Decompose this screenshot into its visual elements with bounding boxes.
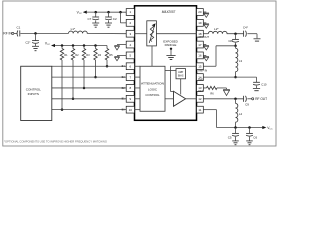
- VCC arrow pullup: [51, 44, 55, 47]
- node: [106, 65, 109, 68]
- capacitor C2: [105, 12, 117, 21]
- wire control row: [52, 109, 126, 111]
- svg-text:AMP IN: AMP IN: [198, 69, 207, 73]
- border frame: [3, 1, 276, 146]
- wire: [55, 45, 107, 47]
- wire: [87, 32, 126, 34]
- VCC arrow top: [83, 11, 87, 14]
- svg-text:C2*: C2*: [25, 41, 31, 45]
- node: [61, 44, 64, 47]
- wire: [135, 109, 141, 111]
- wire: [135, 65, 141, 67]
- pin 13: [197, 85, 204, 92]
- RF IN terminal: [12, 32, 14, 34]
- BIAS label: [198, 79, 204, 82]
- ground: [254, 39, 261, 41]
- capacitor C4*: [243, 25, 249, 36]
- wire attenuator to logic: [151, 46, 153, 66]
- wire: [247, 98, 251, 100]
- ground: [105, 20, 112, 27]
- wire pin 11 to rail: [203, 110, 262, 128]
- svg-text:MAX2057: MAX2057: [162, 9, 176, 14]
- pin 7: [122, 74, 135, 81]
- VCC label out: [267, 126, 273, 130]
- footnote: [4, 139, 108, 143]
- svg-text:20: 20: [198, 10, 202, 14]
- attenuator U1a: [147, 21, 157, 46]
- svg-text:INPUTS: INPUTS: [28, 92, 39, 96]
- svg-text:LOGIC: LOGIC: [148, 87, 157, 91]
- wire: [217, 88, 227, 89]
- svg-text:16: 16: [198, 54, 202, 58]
- node A: [234, 45, 237, 48]
- wire: [235, 43, 237, 46]
- ground: [203, 23, 209, 28]
- wire logic to amp: [165, 98, 174, 100]
- wire amp bias to amp: [180, 79, 182, 95]
- wire pin15 internal: [171, 66, 197, 91]
- pin 10: [122, 106, 135, 113]
- wire pin 15: [203, 65, 216, 67]
- wire: [20, 32, 68, 34]
- wire amp to pin 12: [186, 98, 197, 100]
- wire pin3 to attenuator: [135, 33, 147, 35]
- control inputs box: [21, 66, 52, 120]
- resistor R3: [82, 46, 90, 61]
- ground: [223, 89, 230, 95]
- RF IN label: [3, 32, 12, 36]
- pin 2: [126, 19, 134, 26]
- inductor L3: [236, 46, 243, 72]
- node: [94, 11, 97, 14]
- svg-text:ATT OUT: ATT OUT: [198, 35, 209, 39]
- svg-text:15: 15: [198, 64, 202, 68]
- svg-text:C4*: C4*: [243, 25, 249, 29]
- wire: [235, 72, 237, 77]
- pin 4: [126, 41, 134, 48]
- resistor R2: [71, 46, 79, 61]
- amp bias box U1b: [176, 69, 186, 79]
- pin 9: [122, 95, 135, 102]
- inductor L2*: [208, 27, 227, 34]
- node: [119, 11, 122, 14]
- svg-text:L3: L3: [239, 59, 243, 63]
- pin 8: [122, 85, 135, 92]
- ground: [203, 12, 209, 17]
- svg-text:CONTROL: CONTROL: [145, 93, 160, 97]
- svg-text:R3: R3: [86, 53, 90, 57]
- VCC arrow out: [262, 126, 266, 129]
- wire to pin 2: [121, 12, 127, 23]
- node: [94, 44, 97, 47]
- VCC label top: [77, 10, 83, 14]
- node: [72, 98, 75, 101]
- pin 18: [197, 30, 204, 37]
- svg-text:L4: L4: [239, 112, 243, 116]
- svg-text:C7: C7: [87, 17, 91, 21]
- ground: [114, 55, 126, 60]
- VCC label pullup: [45, 42, 51, 46]
- wire control row: [52, 65, 126, 67]
- ground: [253, 86, 260, 91]
- ground exposed paddle: [166, 56, 175, 60]
- pin 12: [197, 95, 204, 102]
- wire: [14, 32, 17, 34]
- svg-text:R5: R5: [109, 53, 113, 57]
- wire control row: [52, 76, 126, 78]
- svg-text:R1: R1: [64, 53, 68, 57]
- node RF out: [234, 98, 237, 101]
- pin 19: [197, 19, 204, 26]
- AMP IN label: [198, 69, 207, 73]
- capacitor C6: [246, 128, 257, 140]
- capacitor C1: [16, 26, 20, 37]
- pin 20: [197, 9, 204, 16]
- wire: [203, 33, 208, 35]
- capacitor C2*: [25, 33, 39, 44]
- op-amp IC U1 MAX2057 body: [135, 6, 197, 121]
- svg-text:DET: DET: [198, 90, 203, 93]
- node input: [34, 32, 37, 35]
- wire: [61, 60, 63, 110]
- ground: [246, 137, 253, 145]
- inductor L1*: [69, 27, 88, 34]
- wire: [247, 34, 257, 39]
- resistor R5: [105, 46, 113, 61]
- svg-text:RF OUT: RF OUT: [255, 97, 267, 101]
- wire control row: [52, 98, 126, 100]
- amplifier U1c: [174, 91, 186, 106]
- node: [94, 76, 97, 79]
- resistor R6: [203, 86, 217, 95]
- wire: [106, 60, 108, 66]
- node: [248, 126, 251, 129]
- wire: [135, 98, 141, 100]
- wire logic to amp bias: [165, 70, 176, 72]
- wire node A to amp in: [216, 46, 236, 66]
- ground: [92, 20, 99, 27]
- svg-text:10: 10: [129, 108, 133, 112]
- ground: [203, 55, 209, 60]
- pin 15: [197, 63, 204, 70]
- capacitor C5: [228, 128, 239, 140]
- wire: [72, 60, 74, 99]
- ground: [114, 45, 126, 50]
- pin 14: [197, 74, 204, 81]
- svg-text:*OPTIONAL COMPONENTS USE TO IM: *OPTIONAL COMPONENTS USE TO IMPROVE HIGH…: [4, 139, 108, 143]
- node: [83, 44, 86, 47]
- svg-text:RF IN: RF IN: [3, 32, 12, 36]
- svg-text:PADDLE: PADDLE: [165, 43, 177, 47]
- svg-text:BIAS: BIAS: [178, 74, 184, 77]
- resistor R4: [94, 46, 102, 61]
- wire pin 12 out: [203, 98, 243, 100]
- svg-text:C5: C5: [228, 135, 232, 139]
- ground: [32, 44, 39, 51]
- pin 5: [126, 52, 134, 59]
- node: [83, 87, 86, 90]
- node: [234, 126, 237, 129]
- pin 1: [126, 9, 134, 16]
- node: [107, 11, 110, 14]
- wire: [235, 122, 237, 127]
- svg-text:BIAS: BIAS: [198, 79, 204, 82]
- capacitor C9: [244, 96, 250, 107]
- pin 3: [126, 30, 134, 37]
- DET label: [198, 90, 203, 93]
- svg-text:12: 12: [198, 97, 202, 101]
- node att out: [234, 32, 237, 35]
- wire: [227, 33, 244, 35]
- wire: [135, 76, 141, 78]
- svg-text:C6: C6: [253, 135, 257, 139]
- pin 16: [197, 52, 204, 59]
- ATT OUT label: [198, 35, 209, 39]
- svg-text:19: 19: [198, 21, 202, 25]
- exposed paddle: [163, 39, 178, 55]
- node: [72, 44, 75, 47]
- capacitor C7: [87, 12, 99, 21]
- ground: [232, 137, 239, 145]
- svg-text:C2: C2: [113, 17, 117, 21]
- attenuation logic control box: [140, 66, 165, 111]
- pin 6: [122, 63, 135, 70]
- wire: [135, 87, 141, 89]
- wire: [95, 60, 97, 77]
- capacitor C10: [253, 82, 267, 86]
- svg-text:C9: C9: [245, 103, 249, 107]
- svg-text:R6: R6: [210, 92, 214, 96]
- pin 11: [197, 106, 204, 113]
- svg-text:C1: C1: [16, 26, 20, 30]
- inductor L4: [236, 99, 243, 122]
- svg-text:11: 11: [198, 108, 201, 112]
- wire control row: [52, 87, 126, 89]
- node: [61, 108, 64, 111]
- svg-text:R2: R2: [75, 53, 79, 57]
- ground: [203, 45, 209, 50]
- wire pin 14: [203, 76, 235, 78]
- svg-text:C10: C10: [261, 82, 267, 86]
- node B: [234, 76, 237, 79]
- svg-text:17: 17: [198, 43, 202, 47]
- resistor R1: [60, 46, 68, 61]
- RF OUT terminal: [252, 98, 254, 100]
- wire: [83, 60, 85, 88]
- pin 17: [197, 41, 204, 48]
- wire: [87, 11, 126, 13]
- capacitor C8*: [228, 34, 239, 44]
- RF OUT label: [255, 97, 267, 101]
- svg-text:R4: R4: [98, 53, 102, 57]
- wire attenuator to pin18: [156, 33, 196, 35]
- svg-text:ATTENUATION: ATTENUATION: [141, 82, 164, 86]
- wire node B to C10: [236, 77, 257, 82]
